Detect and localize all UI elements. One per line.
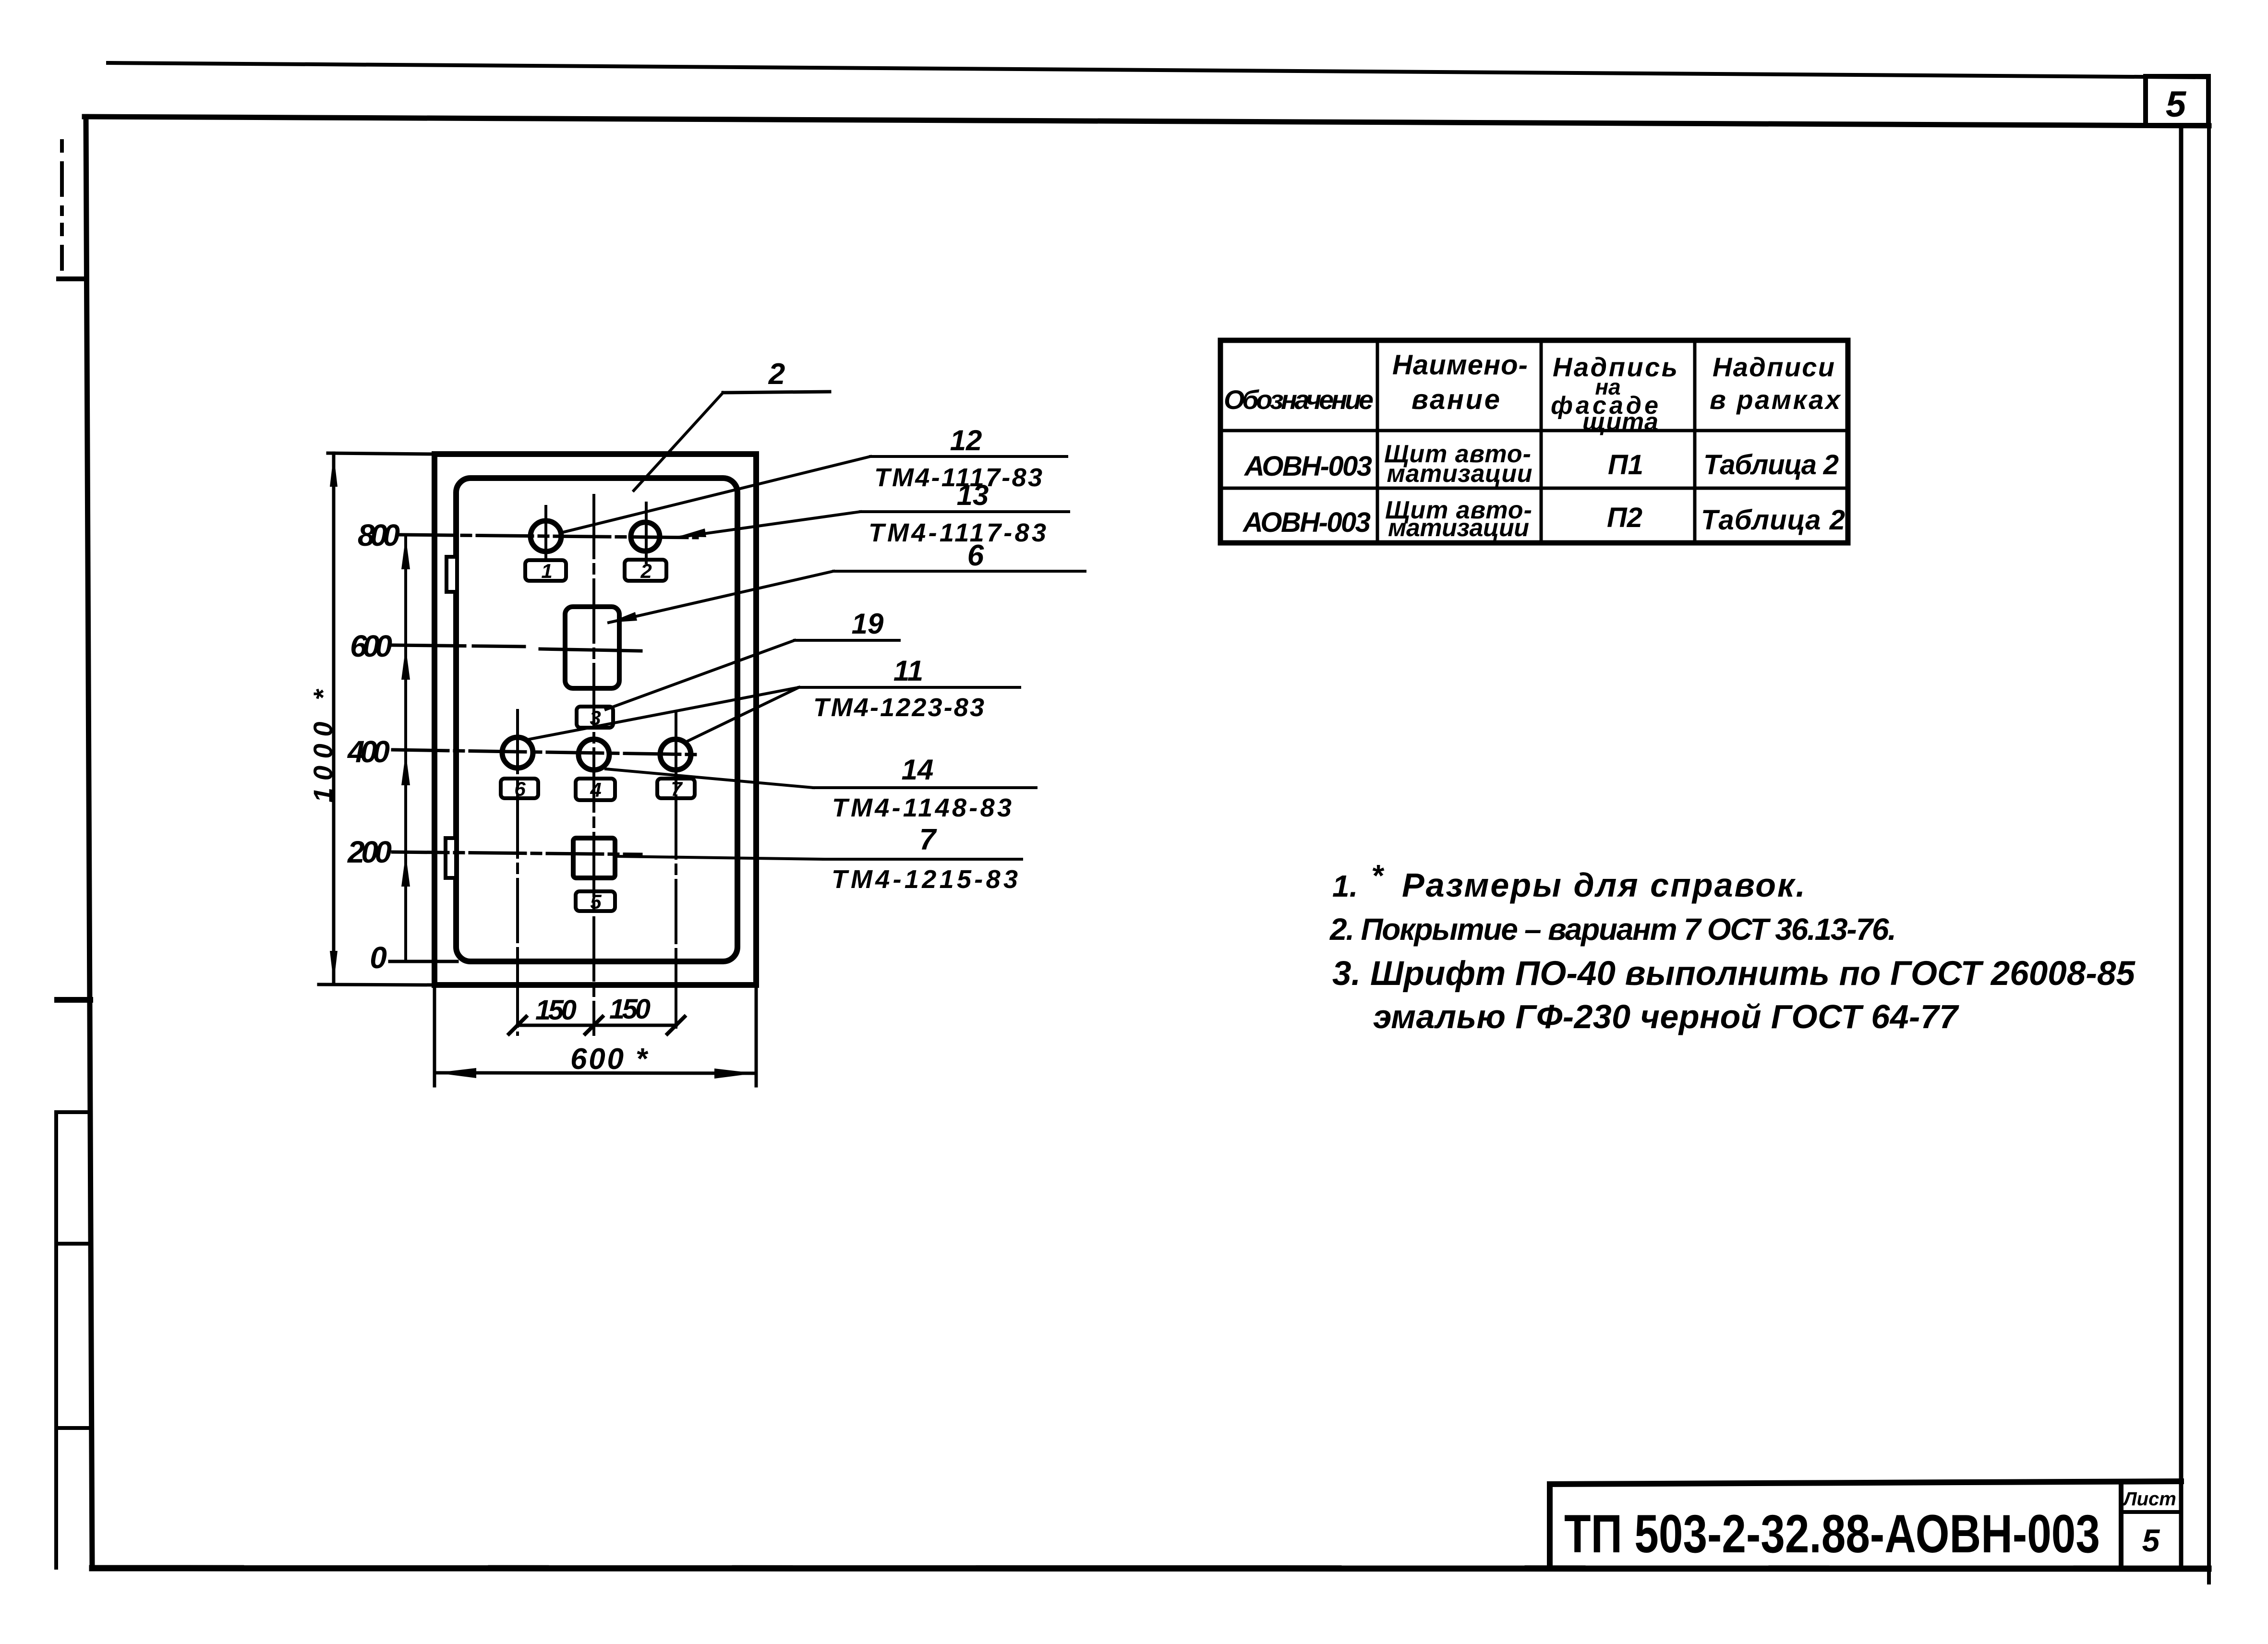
dimension 600 arrow right [714,1068,755,1079]
svg-text:ТМ4-1215-83: ТМ4-1215-83 [832,865,1018,894]
tick right 150 [667,1017,685,1034]
dimension 600 arrow left [435,1068,476,1078]
dimension line 1000 [332,453,336,984]
svg-text:13: 13 [957,479,989,511]
device 6 rectangle [565,607,619,688]
svg-text:П2: П2 [1607,502,1642,533]
svg-text:П1: П1 [1608,449,1643,480]
button circle 7 [660,739,691,770]
button circle 4 [579,739,609,770]
svg-text:14: 14 [902,754,934,786]
left margin graph divider 2 [56,1242,90,1246]
svg-text:матизации: матизации [1388,514,1529,542]
centre line lamp 2 [645,503,648,563]
svg-text:2. Покрытие – вариант 7 ОСТ 36: 2. Покрытие – вариант 7 ОСТ 36.13-76. [1329,912,1896,947]
svg-text:ТМ4-1148-83: ТМ4-1148-83 [832,793,1012,822]
svg-text:800: 800 [358,518,400,552]
table row divider [1220,487,1848,490]
svg-text:АОВН-003: АОВН-003 [1243,451,1372,482]
cabinet outline (front view) [434,454,756,985]
svg-text:11: 11 [893,655,923,687]
svg-text:эмалью ГФ-230 черной ГОСТ 6: эмалью ГФ-230 черной ГОСТ 64-77 [1373,998,1959,1035]
title block frame [1547,1485,1553,1568]
dimension 600 extension right [755,988,758,1086]
frame label 1 [525,560,566,581]
left margin tick middle [57,997,90,1003]
svg-text:Надписи: Надписи [1713,352,1834,382]
svg-text:Наимено-: Наимено- [1392,349,1528,381]
svg-text:Лист: Лист [2122,1488,2176,1510]
drawing frame top border [84,117,2209,126]
frame label 6 [501,779,538,798]
inscription table frame [1220,340,1848,543]
frame label 2 [625,560,666,581]
ordinate 800 centre line [400,535,697,538]
svg-text:3. Шрифт ПО-40 выполнить по: 3. Шрифт ПО-40 выполнить по ГОСТ 26008-8… [1332,955,2136,993]
dimension line 600 [434,1073,756,1073]
dimension 1000 extension top [328,453,434,454]
svg-text:5: 5 [590,890,602,913]
ordinate arrow 600 [401,647,410,680]
frame label 7 [657,779,695,798]
left margin graph divider 1 [56,1110,90,1114]
hinge lower [446,838,456,878]
ordinate base line with arrows [404,535,407,961]
svg-text:*: * [1371,858,1385,893]
left margin graph divider 3 [56,1426,90,1430]
svg-text:2: 2 [640,560,651,582]
drawing frame left border [86,117,92,1568]
table header bottom rule [1220,429,1848,432]
svg-text:150: 150 [609,994,651,1025]
table column divider 1 [1376,340,1379,543]
svg-text:2: 2 [768,358,785,391]
svg-text:600 *: 600 * [570,1043,649,1076]
dimension 1000 arrow top [330,454,338,487]
drawing frame inner right border [2179,125,2184,1568]
centre line right column [675,711,677,1032]
left margin fold mark (dashed) [60,141,64,269]
left margin tick upper [59,276,86,281]
svg-text:6: 6 [967,539,984,572]
button circle 6 [502,737,533,768]
tick left 150 [509,1017,526,1034]
centre line middle column [592,495,595,1034]
svg-text:5: 5 [2166,84,2187,125]
svg-text:5: 5 [2142,1523,2160,1558]
dimension line 150+150 [518,1024,676,1027]
svg-text:200: 200 [347,835,392,869]
hinge upper [446,557,457,592]
dimension 600 extension left [433,988,436,1086]
tick centre 150 [585,1017,603,1034]
svg-text:7: 7 [919,823,937,856]
lamp circle 2 [631,522,660,551]
lamp circle 1 [531,521,561,552]
svg-text:щита: щита [1582,408,1658,436]
svg-text:0: 0 [370,940,387,975]
svg-text:7: 7 [671,778,683,800]
ordinate 400 centre line [393,750,697,755]
ordinate 600 centre line [393,645,524,647]
ordinate arrow 200 [401,854,410,887]
frame label 4 [576,779,615,800]
svg-text:1: 1 [541,560,552,582]
svg-text:ТМ4-1223-83: ТМ4-1223-83 [813,693,984,722]
dimension 1000 extension bottom [319,984,434,985]
frame label 3 [577,707,613,728]
svg-text:600: 600 [350,629,392,663]
svg-text:Таблица 2: Таблица 2 [1701,504,1845,536]
title block list column [2119,1481,2123,1568]
frame label 5 [576,891,615,911]
centre line left column [516,710,519,1034]
cabinet door [456,478,737,961]
svg-text:матизации: матизации [1387,460,1532,488]
sheet right outer border [2207,78,2211,1583]
table column divider 3 [1693,340,1697,543]
svg-text:Размеры для справок.: Размеры для справок. [1402,866,1805,904]
svg-text:вание: вание [1411,384,1500,415]
svg-text:4: 4 [590,779,601,801]
table column divider 2 [1540,340,1543,543]
ordinate 200 centre line [393,852,641,854]
svg-text:АОВН-003: АОВН-003 [1242,507,1371,538]
item 6 horizontal centre line [540,649,641,651]
svg-text:1.: 1. [1332,869,1358,903]
svg-text:12: 12 [950,424,982,456]
title block list divider [2121,1510,2181,1514]
centre line lamp 1 [544,506,547,561]
svg-text:150: 150 [535,995,577,1026]
svg-text:19: 19 [852,608,884,640]
sheet top edge line [108,63,2208,77]
svg-text:Таблица 2: Таблица 2 [1703,449,1839,480]
ordinate arrow 800 [401,537,410,569]
svg-text:400: 400 [347,734,390,769]
svg-text:ТМ4-1117-83: ТМ4-1117-83 [869,518,1046,547]
left margin graph column [54,1112,58,1568]
drawing frame bottom border [92,1568,2208,1569]
svg-text:в рамках: в рамках [1710,384,1842,415]
dimension 1000 arrow bottom [330,951,338,984]
svg-text:Обозначение: Обозначение [1224,384,1374,415]
device 7 square [573,838,615,878]
ordinate arrow 400 [401,753,410,785]
svg-text:ТП 503-2-32.88-АОВН-003: ТП 503-2-32.88-АОВН-003 [1564,1504,2100,1564]
sheet number box top right [2146,76,2208,125]
ordinate 0 line [390,960,457,963]
svg-text:6: 6 [514,778,526,800]
